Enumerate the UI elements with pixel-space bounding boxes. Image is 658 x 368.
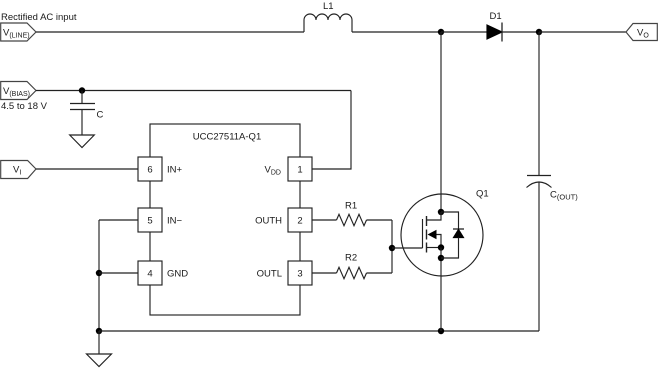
capacitor C(OUT) top plate — [527, 175, 551, 177]
wire V(BIAS) rail — [36, 90, 351, 92]
wire output node to VO flag — [539, 31, 626, 33]
pin 3 OUTL — [288, 261, 312, 285]
wire source down — [440, 248, 442, 332]
Q1 body diode cathode bar — [453, 228, 464, 230]
wire drain vertical from switch node — [440, 32, 442, 212]
Q1 drain stub — [427, 212, 442, 220]
wire R2 to gate rail — [367, 272, 393, 274]
Q1 source stub — [427, 247, 442, 249]
inductor L1 — [304, 14, 352, 32]
resistor R1 — [337, 214, 367, 225]
Q1 body diode lower branch — [441, 238, 459, 259]
svg-text:OUTL: OUTL — [257, 269, 282, 280]
IC U1 UCC27511A-Q1 body — [150, 124, 300, 315]
net flag VI — [1, 161, 36, 179]
Q1 gate bar — [422, 219, 424, 248]
svg-text:Rectified AC input: Rectified AC input — [1, 12, 77, 23]
pin 1 VDD — [288, 157, 312, 181]
svg-text:D1: D1 — [490, 11, 502, 22]
wire pin2 to R1 — [312, 219, 337, 221]
junction: gate node — [389, 245, 395, 251]
ground symbol bottom left — [87, 354, 112, 367]
net flag V(BIAS) — [1, 82, 36, 100]
wire pin3 to R2 — [312, 272, 337, 274]
svg-text:4: 4 — [147, 269, 152, 280]
wire pin5 to left rail — [99, 219, 138, 221]
wire gate rail vertical — [391, 220, 393, 273]
wire gate node to gate — [392, 247, 423, 249]
transistor Q1 envelope circle — [401, 194, 483, 276]
wire VI to pin 6 — [36, 168, 138, 170]
wire R1 to gate rail — [367, 219, 393, 221]
Q1 body diode branch — [441, 212, 459, 229]
svg-text:GND: GND — [167, 269, 188, 280]
wire ground stub — [98, 331, 100, 354]
wire pin4 to left rail — [99, 272, 138, 274]
svg-text:Q1: Q1 — [476, 189, 489, 200]
svg-text:3: 3 — [297, 269, 302, 280]
svg-text:OUTH: OUTH — [255, 216, 282, 227]
svg-text:R2: R2 — [345, 253, 357, 264]
wire D1 cathode to output node — [502, 31, 539, 33]
svg-text:R1: R1 — [345, 201, 357, 212]
svg-text:IN+: IN+ — [167, 165, 183, 176]
capacitor C — [70, 91, 95, 136]
wire C(OUT) to bottom rail — [538, 183, 540, 332]
junction: switch node — [438, 29, 444, 35]
svg-text:C: C — [97, 110, 104, 121]
pin 5 IN- — [138, 208, 162, 232]
junction: left rail to bottom rail — [96, 328, 102, 334]
Q1 channel segment top — [426, 216, 428, 226]
svg-text:L1: L1 — [323, 1, 334, 12]
ground under C — [70, 135, 95, 148]
wire L1 to switch node — [352, 31, 441, 33]
svg-text:4.5 to 18 V: 4.5 to 18 V — [1, 101, 48, 112]
junction: source to bottom rail — [438, 328, 444, 334]
wire V(LINE) to L1 — [36, 31, 304, 33]
wire left rail vertical — [98, 220, 100, 331]
wire bias rail down to VDD pin — [312, 91, 351, 170]
junction: source stub node — [438, 244, 444, 250]
Q1 body arrow — [428, 230, 442, 248]
junction: output node — [536, 29, 542, 35]
wire output node down to C(OUT) — [538, 32, 540, 176]
wire switch node to D1 anode — [441, 31, 487, 33]
net flag V(LINE) — [1, 23, 36, 41]
Q1 channel segment middle — [426, 230, 428, 240]
pin 2 OUTH — [288, 208, 312, 232]
Q1 body diode triangle — [454, 230, 464, 238]
junction: pin4 tap — [96, 270, 102, 276]
net flag VO — [626, 24, 657, 41]
Q1 channel segment bottom — [426, 243, 428, 253]
junction: bias cap node — [79, 87, 85, 93]
junction: body diode bottom node — [438, 255, 444, 261]
junction: drain node — [438, 209, 444, 215]
svg-text:6: 6 — [147, 165, 152, 176]
capacitor C(OUT) curved plate — [527, 182, 552, 188]
pin 4 GND — [138, 261, 162, 285]
pin 6 IN+ — [138, 157, 162, 181]
diode D1 — [487, 23, 502, 42]
svg-text:2: 2 — [297, 216, 302, 227]
svg-text:IN−: IN− — [167, 216, 183, 227]
svg-text:UCC27511A-Q1: UCC27511A-Q1 — [193, 132, 261, 143]
svg-text:C(OUT): C(OUT) — [550, 190, 578, 202]
bottom rail wire — [99, 330, 539, 332]
resistor R2 — [337, 267, 367, 278]
svg-text:5: 5 — [147, 216, 152, 227]
svg-text:1: 1 — [297, 165, 302, 176]
